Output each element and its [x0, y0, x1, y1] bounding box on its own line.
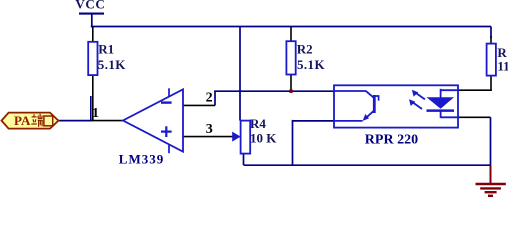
- svg-text:RPR 220: RPR 220: [365, 133, 418, 148]
- svg-text:5.1K: 5.1K: [297, 57, 325, 72]
- svg-text:2: 2: [206, 91, 213, 106]
- svg-text:R1: R1: [98, 41, 114, 56]
- svg-text:10 K: 10 K: [250, 131, 277, 146]
- svg-text:R4: R4: [250, 116, 266, 131]
- svg-text:LM339: LM339: [119, 151, 164, 166]
- svg-text:VCC: VCC: [75, 0, 105, 12]
- svg-text:R2: R2: [297, 41, 313, 56]
- svg-text:5.1K: 5.1K: [98, 57, 126, 72]
- svg-text:3: 3: [206, 122, 213, 137]
- svg-text:1: 1: [92, 106, 99, 121]
- svg-text:PA: PA: [14, 113, 31, 128]
- svg-text:11: 11: [497, 58, 508, 73]
